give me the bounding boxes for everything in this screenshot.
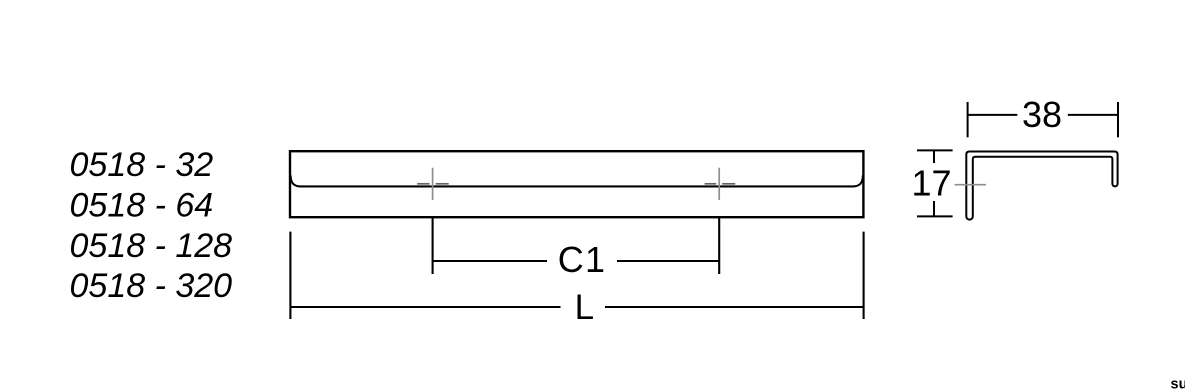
C1 extension line left (432, 216, 434, 274)
handle front view: front edge fold line with curved ends (291, 175, 863, 186)
C1 dimension line (433, 260, 720, 262)
hole centre mark right (gray cross) (705, 168, 736, 200)
dim 38: right tick (1117, 102, 1119, 137)
profile section view: channel outline (966, 152, 1117, 220)
model list: item codes (70, 146, 233, 305)
svg-text:38: 38 (1022, 94, 1062, 135)
C1 extension line right (718, 216, 720, 274)
svg-text:su: su (1171, 377, 1185, 389)
dim 17: top tick (917, 149, 953, 151)
dim 17: dimension line (933, 150, 935, 216)
svg-text:0518 - 64: 0518 - 64 (70, 187, 214, 225)
L dimension line (290, 306, 863, 308)
svg-text:0518 - 128: 0518 - 128 (70, 227, 233, 265)
svg-text:17: 17 (911, 163, 951, 204)
dim 38: dimension line (968, 114, 1118, 116)
svg-text:0518 - 320: 0518 - 320 (70, 267, 233, 305)
svg-text:C1: C1 (558, 239, 607, 280)
svg-text:L: L (575, 288, 594, 327)
L extension line left (289, 232, 291, 319)
profile hole centre mark (gray) (955, 184, 987, 186)
dim 17: bottom tick (917, 215, 953, 217)
dim 38: left tick (967, 102, 969, 137)
handle front view: outer body rectangle (290, 151, 863, 217)
svg-text:0518 - 32: 0518 - 32 (70, 146, 214, 184)
L extension line right (863, 232, 865, 319)
hole centre mark left (gray cross) (417, 168, 449, 200)
